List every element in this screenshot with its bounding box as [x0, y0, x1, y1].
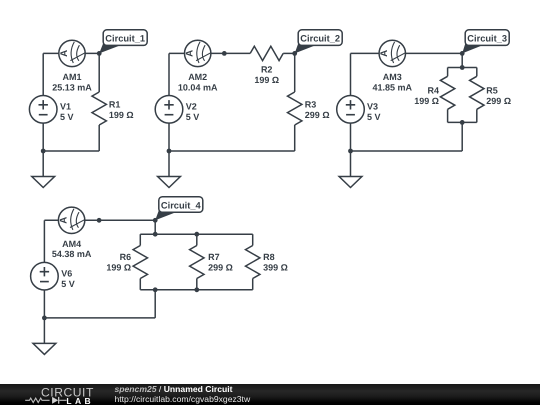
wire	[43, 318, 45, 344]
junction	[348, 149, 353, 154]
label AM1 value	[52, 72, 92, 92]
resistor R7	[190, 246, 233, 279]
svg-text:A: A	[59, 217, 70, 224]
svg-text:41.85 mA: 41.85 mA	[373, 82, 413, 92]
wire	[168, 53, 170, 95]
svg-text:R7: R7	[208, 252, 220, 262]
wire	[461, 53, 463, 67]
svg-text:V3: V3	[367, 102, 378, 112]
wire	[154, 290, 156, 318]
wire	[43, 150, 99, 152]
junction	[460, 65, 465, 70]
wire	[140, 289, 252, 291]
svg-text:299 Ω: 299 Ω	[305, 110, 330, 120]
wire	[168, 123, 170, 151]
svg-text:299 Ω: 299 Ω	[208, 263, 233, 273]
wire	[169, 52, 250, 54]
junction	[222, 51, 227, 56]
svg-text:199 Ω: 199 Ω	[414, 96, 439, 106]
wire	[476, 68, 478, 77]
wire	[447, 109, 449, 122]
svg-text:399 Ω: 399 Ω	[263, 263, 288, 273]
svg-text:A: A	[59, 50, 70, 57]
wire	[196, 279, 198, 290]
footer text	[115, 384, 251, 404]
junction	[153, 218, 158, 223]
wire	[196, 234, 198, 245]
wire	[294, 125, 296, 151]
svg-text:R4: R4	[427, 85, 439, 95]
svg-text:5 V: 5 V	[367, 112, 381, 122]
junction	[167, 149, 172, 154]
junction	[42, 316, 47, 321]
svg-text:R2: R2	[261, 65, 273, 75]
svg-text:299 Ω: 299 Ω	[486, 96, 511, 106]
junction	[194, 232, 199, 237]
svg-text:5 V: 5 V	[61, 279, 75, 289]
svg-text:54.38 mA: 54.38 mA	[52, 249, 92, 259]
junction	[97, 218, 102, 223]
ammeter AM3	[379, 40, 405, 66]
junction	[153, 232, 158, 237]
footer bar	[0, 384, 540, 405]
junction	[153, 287, 158, 292]
node flag Circuit_4	[155, 197, 203, 221]
wire	[476, 109, 478, 122]
wire	[98, 53, 100, 92]
svg-text:10.04 mA: 10.04 mA	[178, 82, 218, 92]
resistor R4	[414, 76, 455, 109]
resistor R3	[288, 92, 330, 125]
wire	[448, 121, 477, 123]
voltage source V1	[29, 96, 57, 124]
wire	[43, 290, 45, 318]
wire	[461, 122, 463, 151]
wire	[44, 219, 155, 221]
svg-text:AM3: AM3	[383, 72, 402, 82]
svg-text:R1: R1	[109, 100, 121, 110]
svg-text:A: A	[185, 50, 196, 57]
wire	[351, 52, 463, 54]
svg-text:25.13 mA: 25.13 mA	[52, 82, 92, 92]
svg-text:R8: R8	[263, 252, 275, 262]
junction	[41, 149, 46, 154]
svg-text:V6: V6	[61, 269, 72, 279]
wire	[42, 53, 44, 95]
wire	[42, 123, 44, 151]
svg-text:AM4: AM4	[62, 239, 81, 249]
wire	[42, 151, 44, 177]
svg-text:R5: R5	[486, 85, 498, 95]
svg-text:R3: R3	[305, 100, 317, 110]
junction	[460, 51, 465, 56]
voltage source V2	[155, 96, 183, 124]
junction	[97, 51, 102, 56]
resistor R6	[106, 246, 147, 279]
wire	[351, 150, 463, 152]
svg-text:A: A	[379, 50, 390, 57]
resistor R1	[92, 92, 134, 125]
label AM3 value	[373, 72, 413, 92]
svg-text:Circuit_1: Circuit_1	[105, 33, 145, 43]
ammeter AM1	[59, 40, 85, 66]
label V6 value	[61, 269, 75, 290]
wire	[168, 151, 170, 177]
junction	[194, 287, 199, 292]
wire	[43, 52, 99, 54]
svg-text:Circuit_3: Circuit_3	[467, 33, 507, 43]
ground	[339, 177, 362, 188]
wire	[139, 279, 141, 290]
svg-text:LAB: LAB	[66, 396, 94, 405]
node flag Circuit_3	[462, 30, 509, 54]
svg-text:V1: V1	[60, 102, 71, 112]
wire	[139, 234, 141, 245]
junction	[292, 51, 297, 56]
wire	[154, 220, 156, 234]
svg-text:5 V: 5 V	[60, 112, 74, 122]
ground	[33, 343, 56, 354]
ammeter AM4	[58, 207, 84, 233]
svg-text:5 V: 5 V	[186, 112, 200, 122]
svg-text:199 Ω: 199 Ω	[106, 263, 131, 273]
label V1 value	[60, 102, 74, 123]
wire	[350, 53, 352, 95]
ground	[32, 177, 55, 188]
wire	[43, 220, 45, 262]
wire	[350, 123, 352, 151]
junction	[460, 120, 465, 125]
wire	[350, 151, 352, 177]
voltage source V6	[31, 262, 59, 290]
label V3 value	[367, 102, 381, 123]
label AM2 value	[178, 72, 218, 92]
wire	[44, 317, 155, 319]
CircuitLab logo	[14, 384, 124, 405]
resistor R2	[250, 46, 283, 85]
wire	[294, 53, 296, 92]
wire	[448, 67, 477, 69]
ammeter AM2	[185, 40, 211, 66]
svg-text:AM2: AM2	[188, 72, 207, 82]
ground	[158, 177, 181, 188]
label AM4 value	[52, 239, 92, 259]
svg-text:R6: R6	[120, 252, 132, 262]
node flag Circuit_2	[295, 30, 343, 54]
wire	[447, 68, 449, 77]
label V2 value	[186, 102, 200, 123]
wire	[169, 150, 295, 152]
wire	[252, 279, 254, 290]
svg-text:199 Ω: 199 Ω	[109, 110, 134, 120]
svg-text:Circuit_2: Circuit_2	[300, 33, 340, 43]
svg-text:Circuit_4: Circuit_4	[161, 200, 202, 210]
voltage source V3	[337, 96, 365, 124]
wire	[283, 52, 295, 54]
resistor R8	[246, 246, 288, 279]
node flag Circuit_1	[99, 30, 147, 54]
wire	[252, 234, 254, 245]
wire	[140, 233, 252, 235]
svg-text:V2: V2	[186, 102, 197, 112]
resistor R5	[470, 76, 511, 109]
svg-text:AM1: AM1	[62, 72, 81, 82]
svg-text:199 Ω: 199 Ω	[254, 75, 279, 85]
wire	[98, 125, 100, 151]
